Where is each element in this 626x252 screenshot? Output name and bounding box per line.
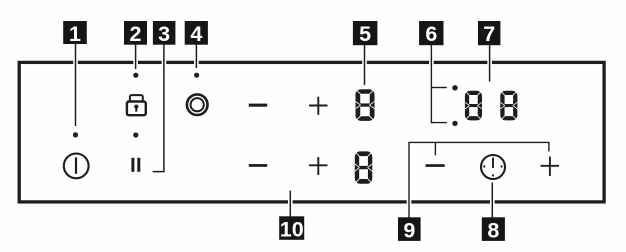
plus row1 (309, 97, 328, 115)
timer minus (426, 164, 445, 167)
digit display B (500, 91, 517, 121)
label 4 (185, 21, 208, 46)
label 9 (398, 217, 421, 242)
indicator dot above ring (194, 73, 199, 78)
svg-text:2: 2 (130, 22, 142, 46)
indicator dot display bottom (452, 121, 457, 126)
label 7 (478, 21, 500, 46)
svg-text:7: 7 (483, 22, 495, 46)
indicator dot below lock (133, 132, 138, 137)
leader 7 (489, 44, 491, 82)
label 3 (153, 21, 176, 46)
lock icon (127, 95, 146, 115)
ring (zone select) icon (187, 94, 208, 115)
svg-text:8: 8 (487, 219, 499, 243)
label 6 (419, 21, 443, 46)
minus row1 (249, 104, 267, 107)
power button icon (64, 154, 89, 179)
label 10 (279, 216, 304, 241)
digit display A (465, 91, 482, 121)
minus row2 (249, 164, 267, 167)
leader 9 with bracket (409, 142, 549, 217)
leader 4 (195, 44, 197, 68)
svg-text:10: 10 (280, 218, 304, 242)
leader 10 (289, 191, 291, 217)
leader 5 (364, 44, 366, 85)
indicator dot above power (73, 132, 78, 137)
plus row2 (309, 157, 328, 175)
svg-text:9: 9 (403, 219, 415, 243)
svg-text:1: 1 (69, 22, 81, 46)
leader 8 (491, 183, 493, 218)
indicator dot above lock (133, 73, 138, 78)
leader 3 (153, 44, 164, 172)
pause II symbol (131, 158, 140, 172)
leader 1 (75, 44, 77, 126)
svg-text:4: 4 (190, 22, 202, 46)
indicator dot display top (452, 85, 457, 90)
leader line casings (white gaps where leaders cross border) (76, 45, 493, 218)
label 2 (124, 21, 147, 46)
svg-text:6: 6 (425, 22, 437, 46)
svg-text:5: 5 (359, 22, 371, 46)
label 5 (353, 21, 378, 46)
label 1 (63, 21, 87, 46)
leader 2 (135, 44, 137, 69)
timer clock icon (481, 155, 505, 179)
svg-text:3: 3 (158, 22, 170, 46)
label 8 (482, 217, 505, 242)
panel border (19, 62, 604, 202)
leader 6 with bracket (431, 44, 447, 123)
digit row2 (355, 151, 372, 183)
timer plus (541, 157, 560, 176)
digit row1 (356, 89, 375, 121)
